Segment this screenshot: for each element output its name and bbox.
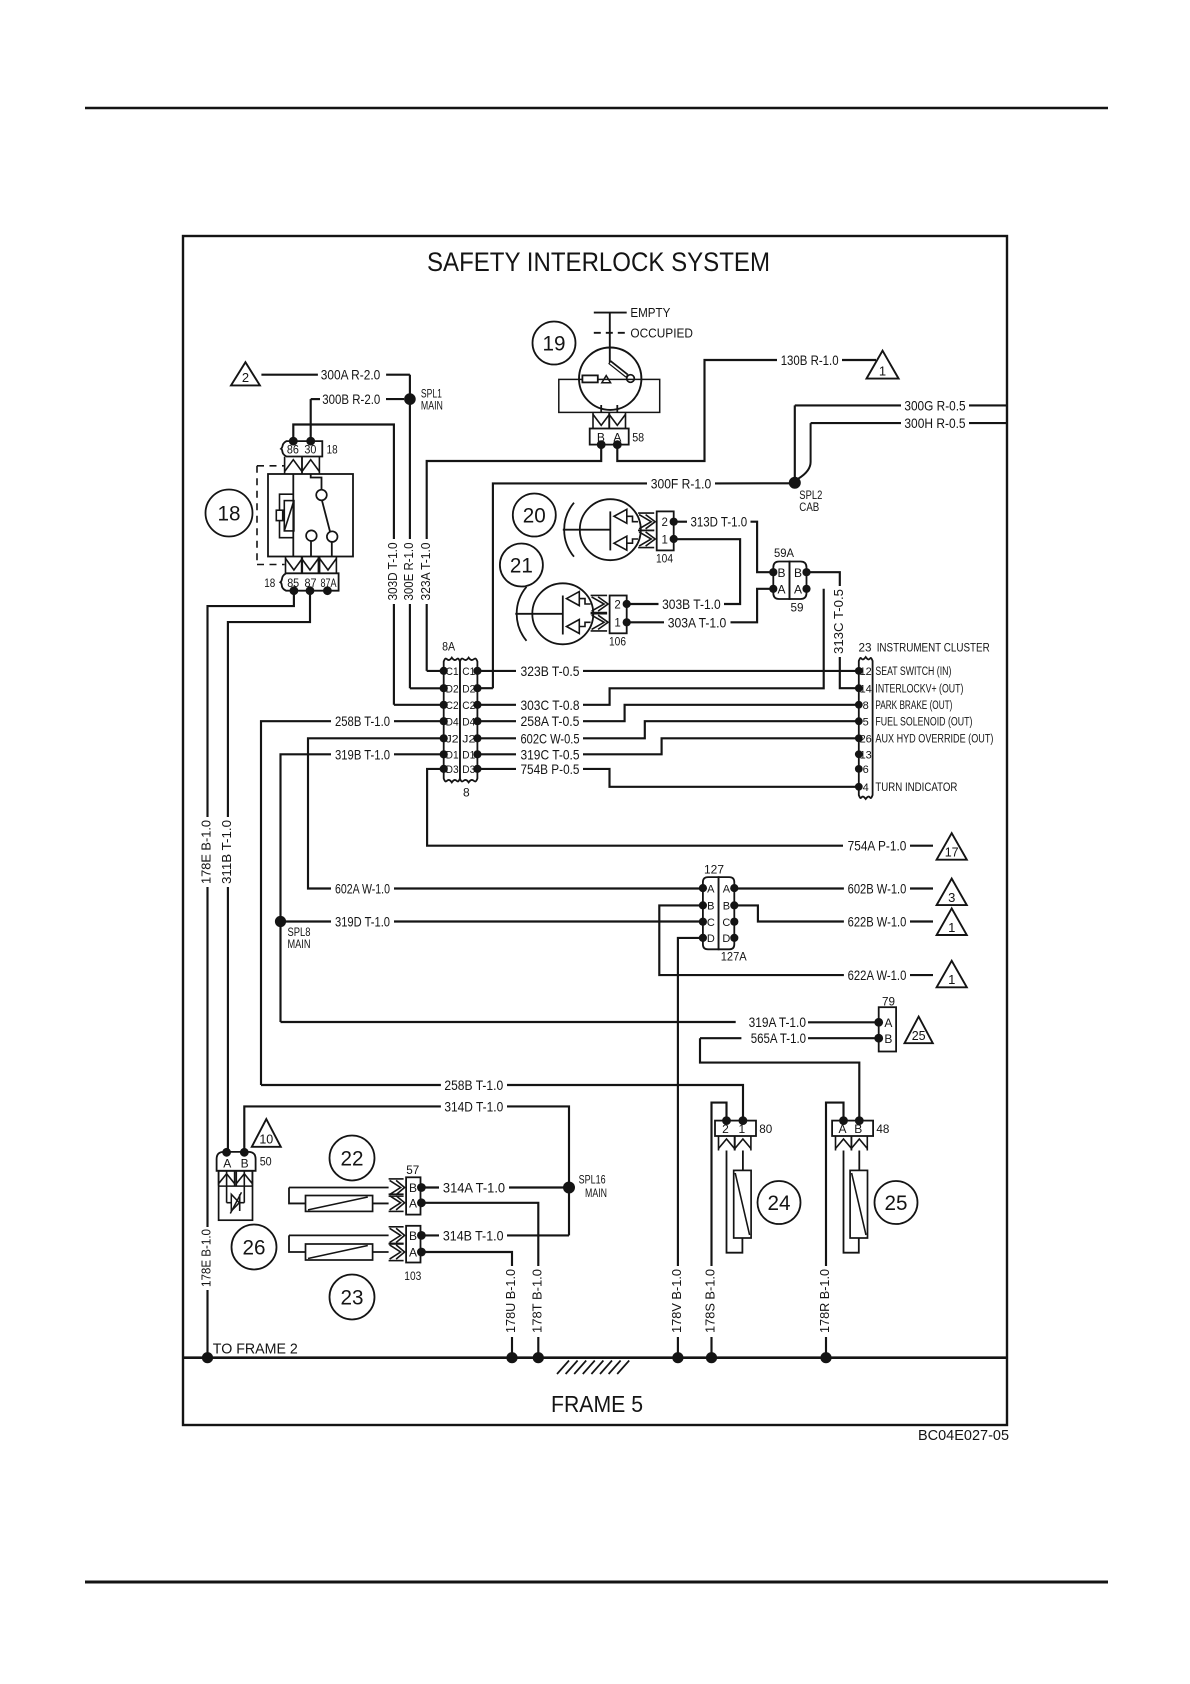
svg-text:B: B [777, 566, 785, 580]
svg-text:59A: 59A [774, 548, 794, 560]
svg-text:A: A [707, 883, 715, 895]
svg-text:B: B [241, 1156, 249, 1170]
svg-text:22: 22 [341, 1148, 364, 1171]
svg-text:A: A [884, 1016, 892, 1030]
svg-text:300B R-2.0: 300B R-2.0 [322, 391, 380, 407]
svg-text:SAFETY INTERLOCK SYSTEM: SAFETY INTERLOCK SYSTEM [427, 247, 770, 277]
svg-text:SPL8: SPL8 [288, 927, 311, 939]
svg-text:18: 18 [264, 578, 275, 590]
svg-text:104: 104 [656, 554, 674, 566]
svg-text:INSTRUMENT CLUSTER: INSTRUMENT CLUSTER [877, 641, 990, 655]
svg-text:300A R-2.0: 300A R-2.0 [321, 367, 381, 383]
svg-text:MAIN: MAIN [288, 939, 311, 951]
svg-text:178R B-1.0: 178R B-1.0 [818, 1269, 832, 1333]
svg-text:303B T-1.0: 303B T-1.0 [662, 596, 721, 612]
svg-text:A: A [223, 1156, 231, 1170]
svg-text:PARK BRAKE (OUT): PARK BRAKE (OUT) [875, 700, 952, 712]
svg-text:TURN INDICATOR: TURN INDICATOR [875, 782, 957, 794]
svg-text:300G R-0.5: 300G R-0.5 [904, 397, 965, 413]
svg-text:21: 21 [510, 555, 533, 578]
svg-text:A: A [723, 883, 731, 895]
svg-text:5: 5 [863, 716, 869, 728]
svg-text:13: 13 [860, 750, 872, 762]
svg-text:565A T-1.0: 565A T-1.0 [751, 1030, 806, 1046]
svg-text:25: 25 [912, 1029, 926, 1043]
svg-text:B: B [794, 566, 802, 580]
svg-text:319B T-1.0: 319B T-1.0 [335, 746, 390, 762]
svg-text:17: 17 [945, 846, 959, 860]
svg-text:86: 86 [287, 444, 299, 456]
svg-text:303C T-0.8: 303C T-0.8 [521, 697, 580, 713]
svg-text:57: 57 [406, 1165, 419, 1177]
svg-text:79: 79 [882, 997, 895, 1009]
svg-text:D2: D2 [462, 683, 475, 695]
svg-text:20: 20 [523, 505, 546, 528]
svg-text:754B P-0.5: 754B P-0.5 [521, 761, 580, 777]
svg-text:314B T-1.0: 314B T-1.0 [443, 1227, 504, 1243]
svg-text:INTERLOCKV+ (OUT): INTERLOCKV+ (OUT) [875, 684, 963, 696]
svg-text:258B T-1.0: 258B T-1.0 [335, 713, 390, 729]
svg-text:AUX HYD OVERRIDE (OUT): AUX HYD OVERRIDE (OUT) [875, 734, 993, 746]
svg-text:18: 18 [218, 503, 241, 526]
svg-text:2: 2 [242, 370, 249, 385]
svg-text:B: B [707, 901, 714, 913]
svg-text:178U B-1.0: 178U B-1.0 [504, 1269, 518, 1333]
svg-text:300E R-1.0: 300E R-1.0 [402, 542, 416, 600]
svg-text:12: 12 [860, 666, 872, 678]
svg-text:A: A [794, 583, 802, 597]
svg-text:303D T-1.0: 303D T-1.0 [386, 542, 400, 600]
svg-text:2: 2 [614, 600, 620, 612]
svg-text:24: 24 [768, 1192, 791, 1215]
svg-text:311B T-1.0: 311B T-1.0 [220, 820, 234, 884]
svg-text:314D T-1.0: 314D T-1.0 [444, 1098, 503, 1114]
svg-text:1: 1 [661, 534, 667, 546]
svg-text:MAIN: MAIN [585, 1188, 607, 1200]
svg-text:80: 80 [759, 1124, 772, 1136]
svg-text:622A W-1.0: 622A W-1.0 [848, 967, 907, 983]
svg-text:323B T-0.5: 323B T-0.5 [521, 663, 580, 679]
svg-text:127A: 127A [721, 952, 747, 964]
svg-text:313C T-0.5: 313C T-0.5 [832, 589, 846, 654]
svg-text:602A W-1.0: 602A W-1.0 [335, 881, 390, 897]
svg-text:A: A [409, 1197, 417, 1211]
svg-text:D4: D4 [462, 716, 475, 728]
svg-text:130B R-1.0: 130B R-1.0 [781, 352, 839, 368]
svg-text:319C T-0.5: 319C T-0.5 [521, 746, 580, 762]
svg-text:J2: J2 [462, 734, 475, 746]
svg-text:319A T-1.0: 319A T-1.0 [749, 1014, 807, 1030]
svg-text:14: 14 [860, 683, 872, 695]
svg-text:1: 1 [948, 920, 955, 935]
svg-text:103: 103 [404, 1271, 421, 1283]
svg-text:1: 1 [879, 363, 886, 378]
svg-text:C: C [722, 917, 730, 929]
svg-text:1: 1 [614, 618, 620, 630]
svg-text:6: 6 [863, 764, 869, 776]
svg-text:B: B [884, 1032, 892, 1046]
svg-text:D: D [707, 933, 715, 945]
svg-text:59: 59 [791, 603, 804, 615]
svg-text:23: 23 [859, 643, 872, 655]
svg-text:300F R-1.0: 300F R-1.0 [651, 475, 712, 491]
svg-text:23: 23 [341, 1287, 364, 1310]
svg-text:8: 8 [863, 700, 869, 712]
svg-text:4: 4 [863, 782, 869, 794]
svg-text:602B W-1.0: 602B W-1.0 [848, 881, 907, 897]
svg-text:258A T-0.5: 258A T-0.5 [521, 713, 580, 729]
svg-text:8A: 8A [442, 640, 455, 654]
svg-text:SEAT SWITCH (IN): SEAT SWITCH (IN) [875, 666, 951, 678]
svg-text:19: 19 [543, 333, 566, 356]
svg-text:C: C [707, 917, 715, 929]
svg-text:B: B [723, 901, 730, 913]
svg-text:1: 1 [948, 972, 955, 987]
svg-text:B: B [409, 1229, 417, 1243]
svg-text:754A P-1.0: 754A P-1.0 [848, 838, 907, 854]
svg-text:25: 25 [885, 1192, 908, 1215]
svg-text:178T B-1.0: 178T B-1.0 [531, 1269, 545, 1333]
svg-text:303A T-1.0: 303A T-1.0 [668, 614, 727, 630]
svg-text:178E B-1.0: 178E B-1.0 [200, 820, 214, 884]
svg-text:26: 26 [243, 1237, 266, 1260]
svg-text:A: A [777, 583, 785, 597]
svg-text:622B W-1.0: 622B W-1.0 [848, 914, 907, 930]
svg-text:BC04E027-05: BC04E027-05 [918, 1428, 1009, 1444]
svg-text:D: D [722, 933, 730, 945]
svg-text:602C W-0.5: 602C W-0.5 [521, 730, 580, 746]
svg-text:313D T-1.0: 313D T-1.0 [690, 514, 747, 530]
svg-text:MAIN: MAIN [421, 398, 443, 412]
svg-text:314A T-1.0: 314A T-1.0 [443, 1180, 505, 1196]
svg-text:50: 50 [260, 1157, 272, 1169]
svg-text:319D T-1.0: 319D T-1.0 [335, 914, 390, 930]
svg-text:300H R-0.5: 300H R-0.5 [904, 415, 965, 431]
svg-text:30: 30 [304, 444, 316, 456]
svg-text:OCCUPIED: OCCUPIED [630, 325, 693, 340]
svg-text:178V B-1.0: 178V B-1.0 [670, 1269, 684, 1333]
svg-text:178E B-1.0: 178E B-1.0 [200, 1229, 214, 1287]
svg-text:EMPTY: EMPTY [630, 305, 670, 320]
svg-text:SPL16: SPL16 [579, 1175, 606, 1187]
svg-text:58: 58 [632, 432, 644, 444]
svg-text:18: 18 [327, 444, 338, 456]
svg-text:C1: C1 [462, 666, 475, 678]
svg-text:FRAME 5: FRAME 5 [551, 1391, 643, 1417]
svg-text:C2: C2 [462, 700, 475, 712]
svg-text:178S B-1.0: 178S B-1.0 [704, 1269, 718, 1333]
svg-text:A: A [409, 1246, 417, 1260]
svg-text:D1: D1 [462, 750, 475, 762]
svg-text:D3: D3 [462, 764, 475, 776]
svg-text:127: 127 [704, 865, 724, 877]
svg-text:FUEL SOLENOID (OUT): FUEL SOLENOID (OUT) [875, 717, 972, 729]
svg-text:CAB: CAB [799, 500, 819, 514]
svg-text:258B T-1.0: 258B T-1.0 [444, 1077, 503, 1093]
svg-text:48: 48 [876, 1124, 889, 1136]
svg-text:TO FRAME 2: TO FRAME 2 [213, 1341, 298, 1358]
svg-text:3: 3 [948, 890, 955, 905]
svg-text:2: 2 [661, 517, 667, 529]
svg-text:10: 10 [259, 1133, 273, 1147]
svg-text:B: B [409, 1181, 417, 1195]
svg-text:106: 106 [609, 637, 626, 649]
svg-text:8: 8 [463, 786, 470, 800]
svg-text:323A T-1.0: 323A T-1.0 [419, 542, 433, 600]
svg-text:26: 26 [860, 734, 872, 746]
